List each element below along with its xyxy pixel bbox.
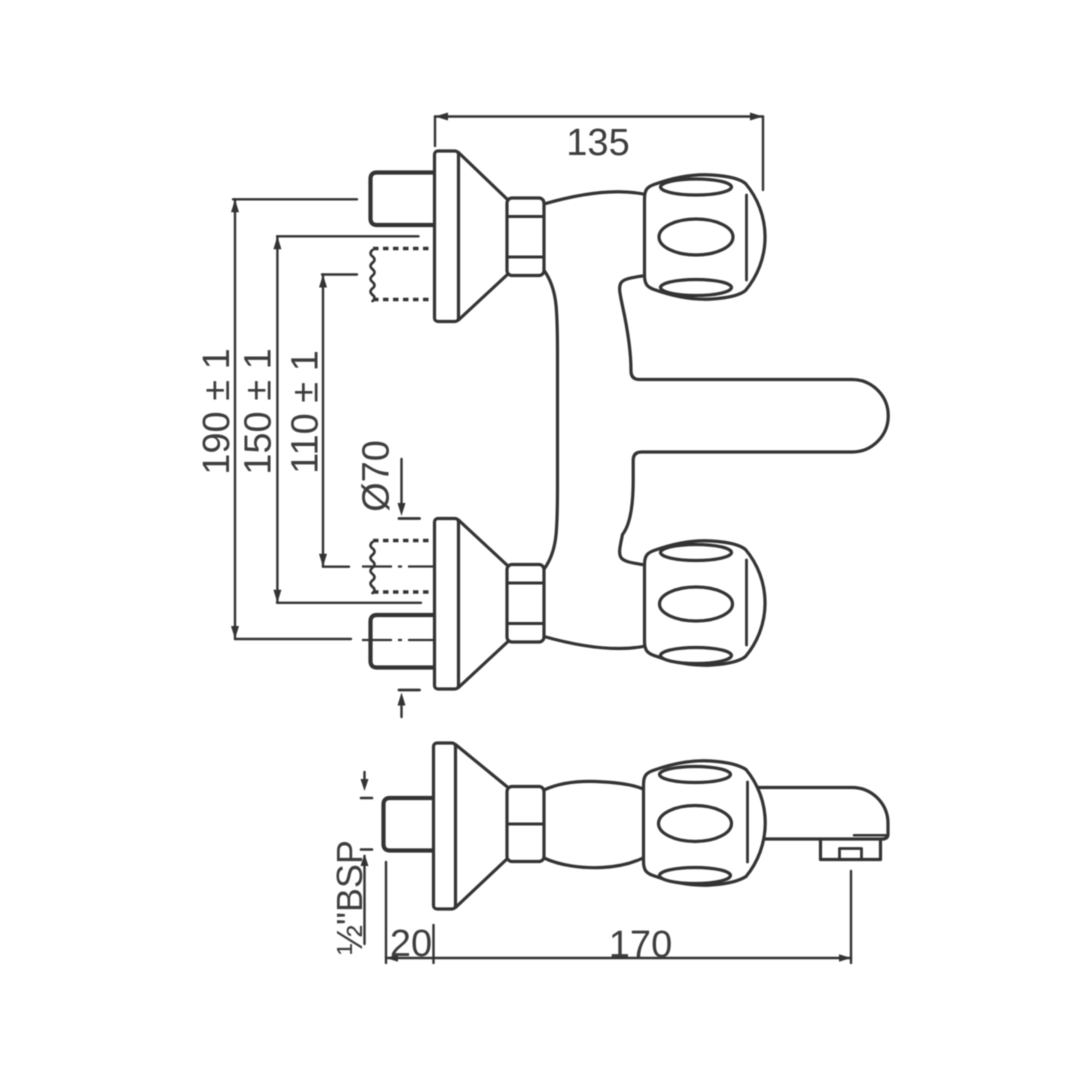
aerator inner box xyxy=(840,849,862,860)
spout top edge xyxy=(755,788,888,839)
ext line 190 bottom xyxy=(235,638,351,640)
top inlet pipe (solid) xyxy=(371,173,437,226)
side hex nut xyxy=(507,787,544,862)
bottom escutcheon cone xyxy=(459,520,509,688)
bottom inlet pipe (dashed alt position) xyxy=(373,541,436,593)
top escutcheon cone xyxy=(459,153,509,321)
right column edge with U spout outline xyxy=(620,276,889,565)
arrowheads 135 xyxy=(435,113,448,121)
svg-text:150 ± 1: 150 ± 1 xyxy=(238,348,280,475)
dim line 150 xyxy=(276,236,278,603)
ext line 110 top xyxy=(322,273,357,275)
thread break wavy edge (top dashed pipe) xyxy=(371,250,375,301)
svg-text:170: 170 xyxy=(609,924,672,966)
dim 135 line xyxy=(435,115,763,117)
side valve body blob xyxy=(544,781,644,867)
bottom hex nut xyxy=(507,565,544,643)
BSP arrow bottom line xyxy=(363,856,365,944)
dim line 190 xyxy=(234,199,236,639)
bottom knob xyxy=(645,541,766,665)
dim 135 right ext tick xyxy=(762,117,764,191)
side flange plate xyxy=(434,743,456,909)
ext line 150 top xyxy=(277,235,419,237)
svg-text:190 ± 1: 190 ± 1 xyxy=(196,348,238,475)
left column edge xyxy=(545,271,558,569)
spout bottom edge xyxy=(762,837,884,840)
dim 135 left ext tick xyxy=(434,117,436,147)
aerator xyxy=(821,839,881,860)
side knob xyxy=(644,761,766,885)
ext tick 20 right xyxy=(432,925,434,963)
ext line 190 top xyxy=(233,198,357,200)
BSP tick bottom xyxy=(361,848,372,851)
svg-text:110 ± 1: 110 ± 1 xyxy=(285,350,327,474)
side escutcheon cone xyxy=(456,745,509,908)
centerline bottom dashed pipe xyxy=(362,565,440,567)
top inlet pipe (dashed alt position) xyxy=(373,249,436,300)
ext line 110 bottom xyxy=(323,566,349,568)
svg-text:20: 20 xyxy=(390,923,432,965)
ext line 170 right xyxy=(850,871,852,963)
dia 70 lower tick xyxy=(399,689,420,692)
spout tip face line xyxy=(854,834,886,837)
bottom wall flange plate xyxy=(435,519,459,690)
dim line 110 xyxy=(322,275,324,567)
dia 70 tick xyxy=(399,517,420,520)
side inlet pipe xyxy=(384,798,437,851)
top knob xyxy=(645,175,766,299)
dia 70 arrow xyxy=(400,459,402,508)
svg-text:135: 135 xyxy=(566,122,629,164)
BSP tick top xyxy=(361,797,372,800)
body top edge xyxy=(544,192,648,204)
centerline bottom solid pipe xyxy=(362,639,442,641)
svg-text:½"BSP: ½"BSP xyxy=(329,840,370,955)
arrowheads vertical dims xyxy=(231,113,763,640)
dim line bottom xyxy=(386,957,851,959)
dia 70 lower arrow xyxy=(400,700,402,717)
ext line 150 bottom xyxy=(277,602,421,604)
body bottom edge xyxy=(544,637,648,649)
svg-text:Ø70: Ø70 xyxy=(356,440,398,512)
BSP arrow top line xyxy=(363,772,365,785)
bottom inlet pipe (solid) xyxy=(371,615,437,668)
top wall flange plate xyxy=(435,151,459,322)
ext line 20 left xyxy=(385,862,387,963)
top hex nut xyxy=(507,198,544,276)
thread break wavy edge (bottom dashed pipe) xyxy=(371,542,375,593)
